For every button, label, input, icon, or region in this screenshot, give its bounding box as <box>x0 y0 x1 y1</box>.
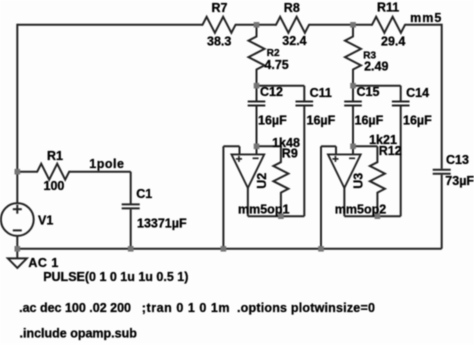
wire U3 output line <box>344 215 400 217</box>
junction R9 output <box>278 213 284 219</box>
svg-text:29.4: 29.4 <box>381 34 405 48</box>
capacitor C11 <box>296 101 314 103</box>
wire U2 output line <box>248 215 304 217</box>
wire R9 bottom lead <box>280 193 282 217</box>
wire bottom rail <box>16 248 441 250</box>
capacitor C12 <box>248 101 266 103</box>
wire U3 plus to ground rail <box>320 146 322 249</box>
resistor R9 <box>273 162 288 192</box>
svg-text:16µF: 16µF <box>355 113 384 127</box>
svg-text:38.3: 38.3 <box>207 34 231 48</box>
wire R3 to cap tee <box>352 70 354 86</box>
wire C15 bottom lead <box>352 106 354 146</box>
junction C1 bottom <box>128 246 134 252</box>
svg-text:1pole: 1pole <box>89 157 124 171</box>
wire left rail upper <box>16 24 18 172</box>
svg-text:16µF: 16µF <box>403 113 432 127</box>
svg-text:.options plotwinsize=0: .options plotwinsize=0 <box>237 301 375 315</box>
wire U3 plus stub <box>335 146 337 154</box>
junction C15 tee <box>350 83 356 89</box>
wire R1 lead left <box>17 171 37 173</box>
junction C12 tee <box>254 83 260 89</box>
svg-text:R8: R8 <box>284 1 300 15</box>
svg-text:.include opamp.sub: .include opamp.sub <box>20 327 138 341</box>
resistor R8 <box>276 17 309 33</box>
svg-text:13371µF: 13371µF <box>137 216 187 230</box>
wire C1 bottom lead <box>130 209 132 249</box>
node2 junction <box>350 22 356 28</box>
resistor R1 <box>37 164 69 180</box>
op-amp U2 <box>232 154 265 188</box>
svg-text:R11: R11 <box>377 1 399 15</box>
svg-text:PULSE(0 1 0 1u 1u 0.5 1): PULSE(0 1 0 1u 1u 0.5 1) <box>43 270 188 284</box>
junction V1/R1 <box>15 169 21 175</box>
wire U2 plus stub <box>239 146 241 154</box>
wire C12 top lead <box>256 86 258 101</box>
wire R12 bottom lead <box>376 193 378 217</box>
junction U3 minus node <box>350 144 356 150</box>
svg-text:;tran 0 1 0 1m: ;tran 0 1 0 1m <box>142 301 230 315</box>
op-amp U3 <box>328 154 361 188</box>
junction V1 bottom <box>15 246 21 252</box>
svg-text:100: 100 <box>44 179 65 193</box>
wire C14 bottom lead <box>400 106 402 216</box>
capacitor C13 <box>433 169 451 171</box>
wire minus node to R9 <box>257 145 281 147</box>
wire node 1pole <box>69 171 131 173</box>
wire U3 plus input <box>321 145 336 147</box>
svg-text:R7: R7 <box>212 1 228 15</box>
wire R7 to node1 <box>236 24 277 26</box>
wire R11 to top right corner <box>405 24 442 26</box>
wire U2 output stub <box>247 188 249 216</box>
wire R9 top lead <box>280 146 282 162</box>
svg-text:16µF: 16µF <box>258 113 287 127</box>
resistor R7 <box>203 17 236 33</box>
wire V1 bottom <box>16 236 18 249</box>
wire C13 to bottom rail <box>441 175 443 249</box>
svg-text:.ac dec 100 .02 200: .ac dec 100 .02 200 <box>19 301 131 315</box>
capacitor C14 <box>392 101 410 103</box>
svg-text:V1: V1 <box>38 214 53 228</box>
resistor R2 <box>249 37 265 70</box>
wire U3 output stub <box>343 188 345 216</box>
wire tee to C14 <box>353 85 401 87</box>
node1 junction <box>254 22 260 28</box>
wire C12 bottom lead <box>256 106 258 146</box>
svg-text:C1: C1 <box>136 187 152 201</box>
junction U2 plus ground <box>221 246 227 252</box>
resistor R11 <box>372 17 405 33</box>
svg-text:R9: R9 <box>282 146 298 160</box>
wire minus node to R12 <box>353 145 377 147</box>
svg-text:2.49: 2.49 <box>364 60 388 74</box>
wire U2 minus stub <box>256 146 258 154</box>
resistor R3 <box>345 37 361 70</box>
wire R8 to node2 <box>309 24 372 26</box>
wire R2 to cap tee <box>256 70 258 86</box>
svg-text:AC 1: AC 1 <box>28 256 58 270</box>
wire C11 bottom lead <box>303 106 305 216</box>
svg-text:C14: C14 <box>406 86 429 100</box>
svg-text:4.75: 4.75 <box>264 58 288 72</box>
svg-text:mm5: mm5 <box>410 11 442 25</box>
svg-text:C15: C15 <box>357 85 380 99</box>
wire top rail left segment <box>17 24 202 26</box>
junction U2 minus node <box>254 144 260 150</box>
capacitor C1 <box>122 203 140 205</box>
wire left rail to V1 <box>16 172 18 204</box>
svg-text:U2: U2 <box>255 173 269 189</box>
ground <box>16 249 18 259</box>
resistor R12 <box>370 162 385 192</box>
wire C15 top lead <box>352 86 354 101</box>
svg-text:73µF: 73µF <box>445 174 474 188</box>
svg-text:C13: C13 <box>446 153 469 167</box>
wire U2 plus to ground rail <box>222 146 224 249</box>
svg-text:32.4: 32.4 <box>282 34 306 48</box>
wire tee to C11 <box>257 85 305 87</box>
svg-text:mm5op2: mm5op2 <box>335 203 386 217</box>
wire R12 top lead <box>376 146 378 162</box>
wire node1 to R2 <box>256 25 258 37</box>
svg-text:16µF: 16µF <box>307 113 336 127</box>
svg-text:mm5op1: mm5op1 <box>238 203 289 217</box>
wire U3 minus stub <box>352 146 354 154</box>
wire U2 plus input <box>223 145 239 147</box>
svg-text:U3: U3 <box>352 173 366 189</box>
junction R12 output <box>375 213 381 219</box>
voltage source V1 <box>1 203 34 236</box>
svg-text:R12: R12 <box>379 144 402 158</box>
svg-text:C11: C11 <box>310 86 332 100</box>
capacitor C15 <box>344 101 362 103</box>
wire C14 top lead <box>400 86 402 101</box>
svg-text:R1: R1 <box>47 149 63 163</box>
junction U3 plus ground <box>318 246 324 252</box>
wire right rail upper <box>441 24 443 169</box>
svg-text:C12: C12 <box>260 85 283 99</box>
wire C1 top lead <box>130 172 132 204</box>
wire node2 to R3 <box>352 25 354 37</box>
wire C11 top lead <box>303 86 305 101</box>
